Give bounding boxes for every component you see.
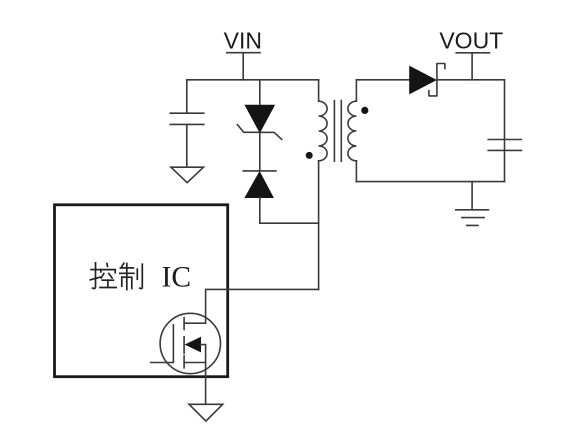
wire secondary bottom lead (355, 161, 357, 182)
wire output bottom rail (356, 181, 504, 183)
diode D1 zener bar (237, 125, 281, 140)
node VOUT label (439, 28, 503, 54)
ground (input, triangle) (171, 167, 204, 183)
wire between snubber diodes (259, 132, 261, 171)
transformer T1 primary winding (319, 101, 328, 161)
wire primary bottom to drain node (318, 161, 320, 290)
wire snubber bottom (259, 198, 261, 224)
VOUT port bar (456, 52, 489, 54)
ground (output, earth bars) (456, 210, 489, 226)
transistor Q1 gate lead (151, 362, 174, 364)
control IC label text IC (162, 262, 192, 294)
capacitor C1 (input) top lead (186, 80, 188, 113)
ground (source, triangle) (189, 404, 223, 421)
transformer T1 secondary top lead (355, 80, 357, 101)
transformer T1 core (334, 101, 341, 162)
wire diode to output corner (437, 79, 505, 81)
transistor Q1 body arrow (186, 338, 201, 352)
node VIN label (224, 28, 262, 54)
wire output right side (504, 80, 506, 182)
wire snubber to primary (260, 222, 319, 224)
transformer T1 secondary polarity dot (361, 107, 368, 114)
wire secondary top rail to diode (356, 79, 409, 81)
control IC label text 制 (120, 263, 143, 289)
svg-text:IC: IC (162, 262, 192, 294)
transistor Q1 body/source link (201, 345, 206, 363)
diode D2 cathode bar (243, 170, 276, 172)
wire VOUT stub (471, 53, 473, 80)
wire drain up and over to primary (206, 289, 319, 323)
svg-text:VIN: VIN (224, 28, 262, 54)
transistor Q1 source lead (184, 362, 206, 364)
transistor Q1 drain lead (184, 322, 206, 324)
control IC label text 控 (90, 263, 116, 289)
svg-text:VOUT: VOUT (439, 28, 503, 54)
wire top input bus (187, 79, 319, 81)
transistor Q1 MOSFET body circle (160, 313, 220, 373)
capacitor C1 bottom lead (186, 124, 188, 167)
diode D2 triangle (245, 172, 273, 198)
wire snubber top (259, 80, 261, 106)
wire VIN stub down to input bus (242, 53, 244, 80)
wire ground stub (output) (471, 182, 473, 210)
transformer T1 primary top lead (318, 80, 320, 101)
diode D3 schottky bar (429, 64, 445, 96)
diode D3 output rectifier triangle (410, 66, 436, 93)
wire source down to ground (205, 363, 207, 405)
capacitor C2 (output) plates (488, 140, 521, 151)
transformer T1 primary polarity dot (306, 152, 313, 159)
transistor Q1 channel segments (183, 318, 185, 368)
transistor Q1 gate bar (172, 325, 174, 362)
diode D1 TVS/zener triangle (245, 105, 274, 132)
transformer T1 secondary winding (348, 101, 357, 161)
capacitor C1 plates (170, 113, 204, 124)
VIN port bar (227, 52, 260, 54)
control IC U1 box (55, 205, 228, 377)
